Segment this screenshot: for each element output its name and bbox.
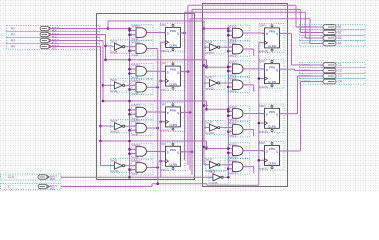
wire inv input row3	[101, 125, 112, 127]
svg-text:OUTPUT: OUTPUT	[301, 76, 311, 78]
svg-text:PRN: PRN	[269, 147, 275, 151]
bus vertical 2	[187, 5, 189, 165]
wire clk stub 3	[161, 160, 166, 162]
svg-text:D: D	[266, 150, 268, 154]
svg-text:D: D	[167, 70, 169, 74]
svg-text:C3: C3	[338, 74, 342, 78]
svg-text:A2: A2	[11, 33, 15, 37]
wire top bundle 1	[185, 11, 306, 13]
svg-text:DFF: DFF	[161, 23, 167, 27]
svg-text:PRN: PRN	[170, 68, 176, 72]
wire right clk stub	[259, 78, 265, 80]
svg-text:inst31: inst31	[260, 167, 268, 171]
wire right AND3 out to D	[243, 150, 265, 152]
hierarchy frame left	[97, 14, 195, 180]
wire top bundle 3	[190, 18, 310, 20]
svg-text:inst11: inst11	[111, 169, 119, 173]
svg-text:CLRN: CLRN	[169, 123, 177, 127]
svg-text:D: D	[266, 113, 268, 117]
input pin A1	[7, 26, 100, 33]
wire top bundle 2	[188, 4, 296, 6]
svg-text:inst36: inst36	[209, 181, 217, 185]
output pin C4	[300, 79, 366, 84]
svg-text:D: D	[167, 111, 169, 115]
svg-text:PRN: PRN	[269, 30, 275, 34]
chain vertical right	[258, 43, 260, 186]
wire AND input taps 0	[130, 29, 137, 31]
inverter inst8	[111, 39, 131, 54]
wire Q3 to bus	[181, 151, 193, 153]
net A3 right corner	[206, 101, 208, 109]
AND gate inst2	[132, 104, 154, 121]
wire right NOT1 out	[222, 82, 232, 84]
AND gate inst20	[228, 41, 250, 58]
svg-text:inst25: inst25	[206, 87, 214, 91]
net A4 run	[101, 140, 207, 142]
svg-text:CLRN: CLRN	[268, 44, 276, 48]
bus vertical 3	[189, 19, 191, 170]
D flip-flop inst28	[259, 24, 284, 54]
net right riser	[227, 29, 229, 178]
svg-text:inst26: inst26	[206, 131, 214, 135]
AND gate inst1	[132, 63, 154, 80]
wire right AND taps 0	[228, 30, 232, 32]
svg-text:inst24: inst24	[206, 51, 214, 55]
output pin C2	[300, 68, 366, 73]
wire right AND1 out to D	[243, 68, 265, 70]
wire right AND2 out drop	[243, 128, 254, 130]
wire AND5 out join	[147, 86, 158, 88]
wire AND6 out join	[147, 127, 158, 129]
AND gate inst23	[228, 158, 250, 175]
AND gate inst4	[132, 40, 154, 57]
svg-text:inst15: inst15	[161, 168, 169, 172]
wire A3 run	[61, 40, 103, 42]
svg-text:PRN: PRN	[170, 29, 176, 33]
input pin A3	[7, 38, 100, 45]
AND gate inst21	[228, 77, 250, 94]
svg-text:inst28: inst28	[260, 49, 268, 53]
wire input A1	[50, 28, 61, 30]
wire right NOT3 out	[222, 164, 232, 166]
net right feed vertical	[203, 29, 205, 165]
output pin B4	[300, 41, 366, 46]
AND gate inst19	[228, 142, 250, 159]
wire right AND0 out to D	[243, 32, 265, 34]
svg-text:CLRN: CLRN	[169, 82, 177, 86]
wire A4 run	[61, 46, 101, 48]
svg-text:OUTPUT: OUTPUT	[301, 38, 311, 40]
chain vertical left A	[157, 49, 159, 184]
wire right Q4 out	[280, 150, 301, 152]
svg-text:DFF: DFF	[260, 141, 266, 145]
svg-text:OUTPUT: OUTPUT	[301, 81, 311, 83]
wire NOT0 out to AND	[127, 46, 136, 48]
wire right clk stub	[259, 42, 265, 44]
AND gate inst0	[132, 24, 154, 41]
hierarchy frame right	[203, 4, 288, 187]
wire Q0 to bus	[181, 32, 185, 34]
net CLK riser left	[129, 29, 131, 178]
wire CLK run	[61, 176, 213, 178]
D flip-flop inst30	[259, 104, 284, 134]
wire NOT3 out to AND	[127, 165, 136, 167]
net A4 right corner	[206, 141, 208, 149]
wire Q2 to bus	[181, 111, 191, 113]
svg-text:DFF: DFF	[260, 104, 266, 108]
D flip-flop inst29	[259, 59, 284, 89]
wire right clk stub	[259, 122, 265, 124]
D flip-flop inst15	[160, 142, 185, 172]
wire inv input row1	[106, 45, 112, 47]
svg-text:inst10: inst10	[111, 130, 119, 134]
svg-text:DFF: DFF	[161, 62, 167, 66]
wire A1 into cells	[108, 28, 130, 30]
wire right NOT2 out	[222, 127, 232, 129]
svg-text:B3: B3	[338, 36, 342, 40]
svg-text:DFF: DFF	[161, 142, 167, 146]
wire NOT2 out to AND	[127, 125, 136, 127]
wire NOT1 out to AND	[127, 84, 136, 86]
input pin CLK	[1, 174, 62, 181]
wire right clk stub	[259, 159, 265, 161]
wire inv input row2	[103, 84, 112, 86]
wire input A3	[50, 40, 61, 42]
AND gate inst5	[132, 79, 154, 96]
wire AND input taps 1	[130, 68, 137, 70]
input pin C	[1, 184, 62, 191]
input pin A2	[7, 32, 100, 39]
wire right AND taps 1	[228, 66, 232, 68]
inverter inst11	[111, 158, 131, 173]
svg-text:A4: A4	[11, 45, 15, 49]
inverter inst25	[206, 76, 226, 91]
svg-text:OUTPUT: OUTPUT	[301, 27, 311, 29]
svg-text:inst13: inst13	[161, 87, 169, 91]
svg-text:DFF: DFF	[260, 59, 266, 63]
svg-text:OUTPUT: OUTPUT	[301, 65, 311, 67]
net A3 drop	[102, 41, 104, 102]
AND gate inst6	[132, 120, 154, 137]
output pin B3	[300, 35, 366, 40]
wire right AND2 out drop	[243, 84, 254, 86]
svg-text:D: D	[167, 151, 169, 155]
wire AND2 out to D	[147, 111, 166, 113]
output pin B2	[300, 30, 366, 35]
inverter inst27	[206, 158, 226, 173]
wire A2 run	[61, 34, 106, 36]
wire clk stub 0	[161, 41, 166, 43]
wire C run	[61, 186, 152, 188]
D flip-flop inst14	[160, 103, 185, 133]
svg-text:B1: B1	[338, 25, 342, 29]
wire Q1 to bus	[181, 71, 188, 73]
AND gate inst22	[228, 121, 250, 138]
AND gate inst17	[228, 61, 250, 78]
svg-text:inst9: inst9	[111, 89, 118, 93]
wire right AND taps 3	[228, 148, 232, 150]
svg-text:CLRN: CLRN	[169, 163, 177, 167]
svg-text:OUTPUT: OUTPUT	[301, 32, 311, 34]
svg-text:VCC: VCC	[52, 48, 57, 51]
net A1 drop right	[203, 21, 205, 29]
wire AND1 out to D	[147, 70, 166, 72]
wire clk stub 2	[161, 121, 166, 123]
svg-text:inst8: inst8	[111, 50, 118, 54]
D flip-flop inst31	[259, 141, 284, 171]
inverter inst24	[206, 40, 226, 55]
wire right inv input	[204, 82, 207, 84]
svg-text:inst14: inst14	[161, 128, 169, 132]
svg-text:B4: B4	[338, 42, 342, 46]
svg-text:CLK: CLK	[8, 175, 15, 179]
bus vertical 1	[184, 12, 186, 160]
wire AND4 out join	[147, 48, 158, 50]
wire right AND2 out to D	[243, 112, 265, 114]
AND gate inst16	[228, 25, 250, 42]
wire clk stub 1	[161, 80, 166, 82]
inverter inst26	[206, 120, 226, 135]
svg-text:PRN: PRN	[269, 65, 275, 69]
AND gate inst3	[132, 143, 154, 160]
output pin C1	[300, 62, 366, 67]
AND gate inst18	[228, 105, 250, 122]
wire right Q3 out	[280, 113, 298, 115]
svg-text:DFF: DFF	[161, 103, 167, 107]
svg-text:C4: C4	[338, 80, 342, 84]
output pin C3	[300, 73, 366, 78]
svg-text:PRN: PRN	[269, 110, 275, 114]
chain vertical left B	[160, 42, 162, 177]
svg-text:D: D	[167, 32, 169, 36]
input pin A4	[7, 44, 100, 51]
wire right Q1 out	[280, 32, 292, 34]
svg-text:C2: C2	[338, 69, 342, 73]
wire right AND2 out drop	[243, 166, 254, 168]
D flip-flop inst12	[160, 23, 185, 53]
svg-text:VCC: VCC	[50, 188, 55, 191]
svg-text:CLRN: CLRN	[169, 44, 177, 48]
svg-text:CLRN: CLRN	[268, 162, 276, 166]
svg-text:CLRN: CLRN	[268, 125, 276, 129]
wire top bundle 4	[192, 8, 301, 10]
output pin B1	[300, 24, 366, 29]
wire right NOT0 out	[222, 46, 232, 48]
wire AND7 out join	[147, 166, 158, 168]
net A2 drop	[105, 35, 107, 60]
svg-text:inst29: inst29	[260, 85, 268, 89]
svg-text:PRN: PRN	[170, 109, 176, 113]
svg-text:inst12: inst12	[161, 49, 169, 53]
svg-text:DFF: DFF	[260, 24, 266, 28]
wire inv input row4	[100, 141, 102, 166]
net A1 right run	[204, 28, 228, 30]
wire AND3 out to D	[147, 150, 166, 152]
bus vertical 4	[191, 9, 193, 175]
right feed stubs	[204, 65, 208, 67]
AND gate inst7	[132, 159, 154, 176]
inverter inst36	[209, 170, 229, 185]
inverter inst10	[111, 119, 131, 134]
svg-text:VCC: VCC	[50, 178, 55, 181]
wire input A4	[50, 46, 61, 48]
D flip-flop inst13	[160, 62, 185, 92]
svg-text:inst30: inst30	[260, 130, 268, 134]
net A1 riser	[107, 21, 109, 29]
svg-text:OUTPUT: OUTPUT	[301, 43, 311, 45]
wire clkinv out	[226, 176, 229, 178]
svg-text:PRN: PRN	[170, 148, 176, 152]
svg-text:D: D	[266, 32, 268, 36]
net A3 run	[103, 100, 207, 102]
wire AND0 out to D	[147, 32, 166, 34]
wire AND input taps 2	[130, 109, 137, 111]
wire A1 run	[61, 28, 108, 30]
wire right AND taps 2	[228, 110, 232, 112]
wire right inv input	[204, 164, 207, 166]
net A2 right corner	[206, 60, 208, 67]
svg-text:B2: B2	[338, 31, 342, 35]
wire AND input taps 3	[130, 148, 137, 150]
net A4 drop	[100, 47, 102, 142]
svg-text:CLRN: CLRN	[268, 80, 276, 84]
wire right AND2 out drop	[243, 48, 254, 50]
svg-text:A1: A1	[11, 27, 15, 31]
wire right inv input	[204, 46, 207, 48]
svg-text:A3: A3	[11, 39, 15, 43]
svg-text:C1: C1	[338, 63, 342, 67]
svg-text:D: D	[266, 68, 268, 72]
net A1 top run	[108, 20, 204, 22]
inverter inst9	[111, 78, 131, 93]
wire right Q2 out	[280, 68, 295, 70]
wire input A2	[50, 34, 61, 36]
net A2 run	[106, 59, 207, 61]
wire right inv input	[204, 127, 207, 129]
svg-text:OUTPUT: OUTPUT	[301, 70, 311, 72]
